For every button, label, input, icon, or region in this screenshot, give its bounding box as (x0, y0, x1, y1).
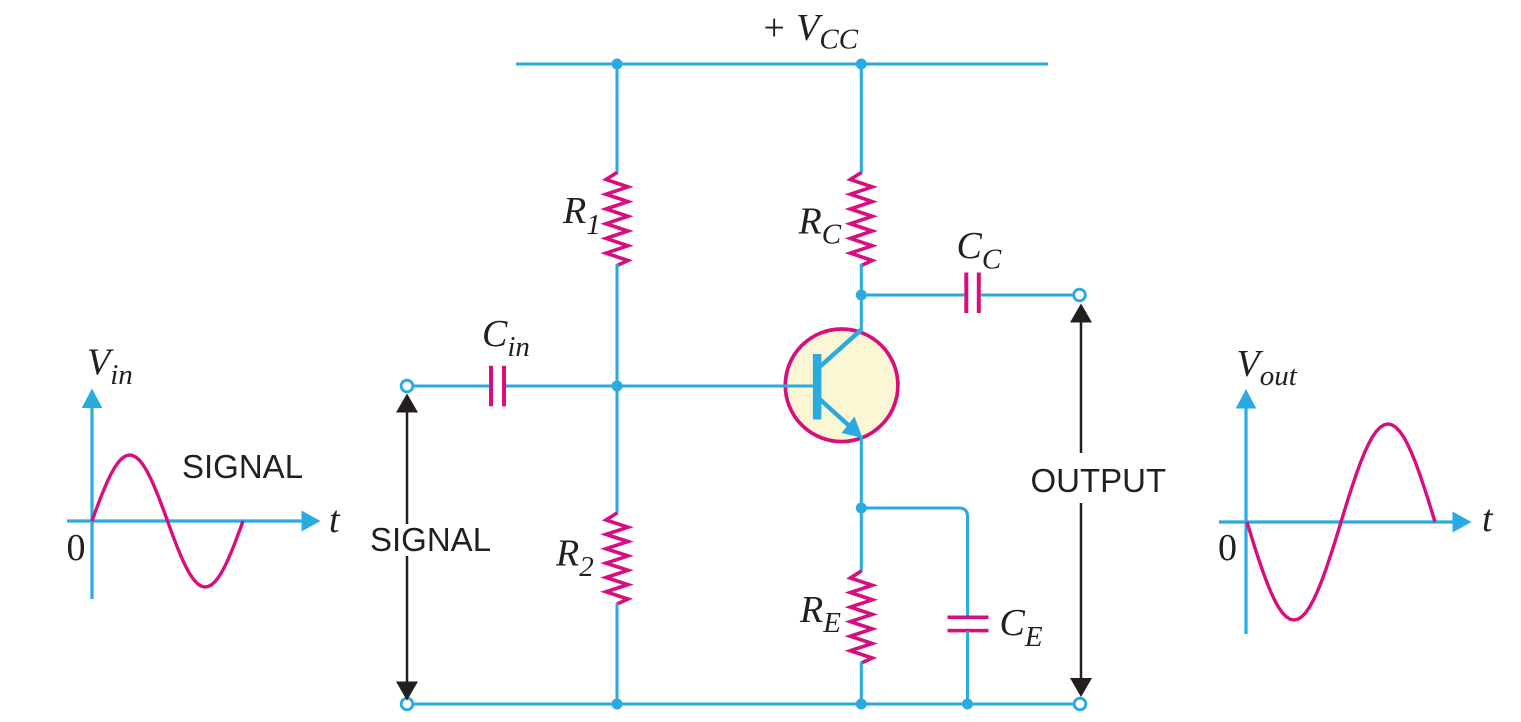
svg-text:Vout: Vout (1237, 343, 1298, 392)
node VCC rail (516, 63, 1048, 66)
svg-text:Vin: Vin (87, 342, 133, 392)
capacitor CC (964, 273, 981, 314)
junction dot base node (612, 381, 623, 392)
signal arrowhead up (396, 394, 418, 413)
signal arrow line lower (406, 556, 409, 685)
wire RC to collector node (860, 264, 863, 296)
wire input terminal to Cin (413, 385, 489, 388)
wire collector node to CC (861, 294, 964, 297)
Vout sine wave (1247, 424, 1435, 620)
capacitor Cin (489, 366, 506, 407)
junction dot rail-CE (962, 699, 973, 710)
Vin axis vertical (90, 405, 93, 599)
Vin axis arrowhead right (302, 511, 321, 532)
svg-text:+ VCC: + VCC (761, 7, 859, 56)
svg-text:CE: CE (1000, 602, 1043, 653)
junction dot rail-R2 (612, 699, 623, 710)
Vout axis arrowhead up (1236, 389, 1257, 409)
wire Cin to base node (506, 385, 813, 388)
svg-text:Cin: Cin (482, 313, 530, 363)
signal arrow line upper (406, 410, 409, 524)
wire emitter node to RE (860, 508, 863, 572)
ground rail terminal left (401, 698, 413, 710)
svg-text:R2: R2 (555, 533, 594, 584)
capacitor CE (948, 616, 989, 633)
junction dot rail-RC (856, 59, 867, 70)
transistor emitter lead (819, 399, 851, 428)
ground rail terminal right (1074, 698, 1086, 710)
transistor collector lead (819, 329, 862, 367)
svg-text:0: 0 (1218, 527, 1237, 569)
junction dot emitter node (856, 503, 867, 514)
wire emitter node to CE branch (861, 508, 967, 617)
transistor emitter arrowhead (842, 417, 863, 439)
svg-text:CC: CC (957, 225, 1002, 276)
svg-text:0: 0 (67, 527, 86, 569)
junction dot rail-R1 (612, 59, 623, 70)
wire VCC to RC (860, 64, 863, 174)
svg-text:SIGNAL: SIGNAL (182, 448, 303, 485)
OUTPUT arrow line upper (1080, 320, 1083, 453)
svg-text:RE: RE (799, 589, 841, 639)
wire collector vertical (860, 296, 863, 330)
Vout axis arrowhead right (1453, 512, 1472, 533)
wire R1 to base node (616, 264, 619, 386)
resistor RC (850, 173, 872, 266)
resistor R1 (606, 173, 628, 266)
wire CE to ground rail (966, 631, 969, 704)
resistor R2 (606, 513, 628, 604)
node ground rail (407, 703, 1080, 706)
Vout axis horizontal (1219, 520, 1454, 523)
svg-text:t: t (1482, 498, 1494, 540)
transistor base bar (813, 354, 822, 420)
Vin axis horizontal (67, 519, 303, 522)
wire R2 to ground rail (616, 603, 619, 704)
OUTPUT arrowhead up (1070, 304, 1092, 323)
svg-text:R1: R1 (562, 190, 601, 241)
svg-text:SIGNAL: SIGNAL (370, 521, 491, 558)
Vout axis vertical (1244, 406, 1247, 635)
Vin sine wave (92, 455, 243, 587)
svg-text:RC: RC (798, 201, 842, 251)
signal arrowhead down (396, 682, 418, 701)
svg-text:OUTPUT: OUTPUT (1031, 462, 1167, 499)
OUTPUT arrowhead down (1070, 678, 1092, 697)
OUTPUT arrow line lower (1080, 503, 1083, 680)
junction dot collector node (856, 290, 867, 301)
input terminal (401, 380, 413, 392)
transistor Q1 (785, 329, 898, 442)
wire CC to output terminal (981, 294, 1073, 297)
wire VCC to R1 (616, 64, 619, 174)
wire base node to R2 (616, 386, 619, 514)
resistor RE (850, 571, 872, 663)
wire emitter vertical (860, 436, 863, 508)
svg-text:t: t (329, 499, 341, 541)
Vin axis arrowhead up (82, 389, 103, 409)
output terminal (1074, 289, 1086, 301)
junction dot rail-RE (856, 699, 867, 710)
wire RE to ground rail (860, 662, 863, 704)
